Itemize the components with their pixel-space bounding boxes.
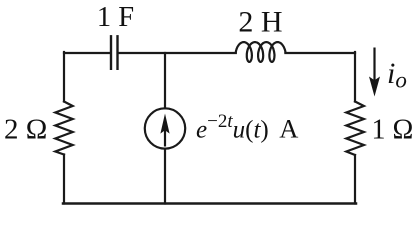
resistor R 1ohm zigzag xyxy=(346,102,364,156)
wire top-left segment xyxy=(64,52,110,54)
current source arrow xyxy=(160,114,169,147)
svg-text:1 Ω: 1 Ω xyxy=(372,115,414,146)
svg-text:io: io xyxy=(387,57,407,93)
wire left vertical top xyxy=(63,52,65,102)
svg-text:2 Ω: 2 Ω xyxy=(4,114,47,146)
capacitor C 1F plates xyxy=(111,36,118,69)
svg-text:2 H: 2 H xyxy=(238,6,282,39)
wire bottom xyxy=(63,202,356,205)
inductor L 2H coil xyxy=(236,42,286,62)
output current arrow io xyxy=(369,48,380,97)
resistor R 2ohm zigzag xyxy=(55,102,72,155)
svg-text:e−2tu(t)A: e−2tu(t)A xyxy=(196,111,298,144)
current source circle xyxy=(145,108,185,148)
wire top-middle segment xyxy=(118,52,236,54)
wire middle branch top xyxy=(164,53,166,108)
wire right vertical top xyxy=(354,52,356,102)
wire left vertical bottom xyxy=(63,155,65,204)
wire right vertical bottom xyxy=(354,155,356,204)
wire top-right segment xyxy=(285,52,355,54)
svg-text:1 F: 1 F xyxy=(97,2,134,33)
wire middle branch bottom xyxy=(164,149,166,204)
